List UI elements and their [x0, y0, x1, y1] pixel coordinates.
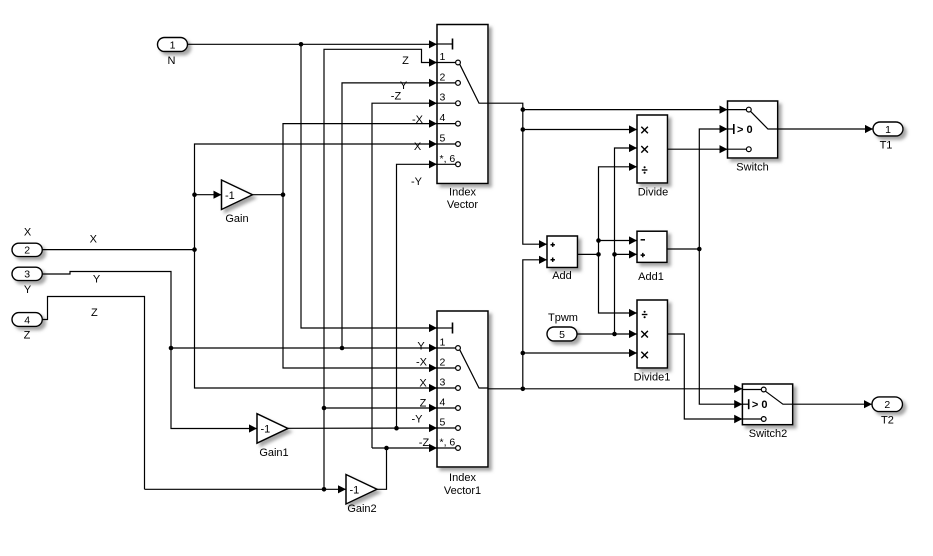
- svg-text:4: 4: [440, 112, 446, 124]
- product block 'Divide': [637, 115, 668, 199]
- junction sum bus / Add1: [596, 238, 601, 243]
- svg-text:Add1: Add1: [638, 271, 664, 283]
- wire: Z port up and across then down to bottom rail: [42, 297, 144, 490]
- svg-text:1: 1: [440, 51, 446, 63]
- gain block 'Gain1' (-1): [257, 414, 289, 459]
- gain block 'Gain' (-1): [222, 180, 253, 225]
- signal label X at IV1 port 3: [419, 378, 427, 390]
- signal label Z at IV port 1: [402, 55, 409, 67]
- outport 2 'T2': [872, 397, 903, 427]
- svg-text:5: 5: [440, 133, 446, 145]
- wire: Index Vector1 output long rail to Switch2 input 1: [488, 388, 742, 390]
- inport 5 'Tpwm': [547, 312, 578, 341]
- wire: Tpwm port into Divide1 input 2: [577, 333, 637, 335]
- wire: X branch into Gain input: [195, 194, 222, 196]
- junction Y / up branch: [340, 346, 345, 351]
- svg-text:Gain1: Gain1: [259, 447, 288, 459]
- svg-text:X: X: [24, 227, 32, 239]
- junction Z / IV1 port 4: [322, 406, 327, 411]
- junction sum bus / Add output: [596, 252, 601, 257]
- junction Z bottom rail: [322, 487, 327, 492]
- svg-text:3: 3: [440, 377, 446, 389]
- svg-text:3: 3: [24, 269, 30, 281]
- junction Divide1 branch: [521, 351, 526, 356]
- svg-text:Divide1: Divide1: [634, 372, 671, 384]
- wire: branch to Switch input 1: [523, 109, 728, 111]
- switch block 'Switch': [728, 101, 778, 174]
- svg-text:5: 5: [559, 329, 565, 341]
- svg-text:Z: Z: [24, 330, 31, 342]
- sum block 'Add1': [637, 231, 667, 283]
- wire: Z branch right into Index Vector1 port 4: [324, 407, 437, 409]
- product block 'Divide1': [634, 300, 671, 384]
- svg-text:2: 2: [440, 357, 446, 369]
- wire: Y branch down into Gain1 input: [171, 348, 257, 429]
- wire: -Z rail into Index Vector1 port 6: [372, 447, 437, 449]
- wire: Add output to sum bus: [578, 253, 599, 255]
- svg-text:Index: Index: [449, 472, 476, 484]
- svg-text:Y: Y: [24, 284, 32, 296]
- svg-text:2: 2: [440, 71, 446, 83]
- svg-text:-1: -1: [261, 423, 271, 435]
- svg-text:-Y: -Y: [411, 176, 423, 188]
- wire: control bus down into Switch2 input 2: [699, 249, 742, 404]
- svg-text:-X: -X: [416, 357, 428, 369]
- signal label Z (port 4 wire): [91, 307, 98, 319]
- wire: Divide1 output down into Switch2 input 3: [668, 334, 743, 419]
- wire: Z riser up with jog into Index Vector port 1: [324, 49, 437, 489]
- wire: X vertical up then right into Index Vector port 5: [195, 144, 438, 250]
- wire: Z bottom rail right into Gain2 input: [145, 488, 347, 490]
- inport 4 'Z': [12, 313, 42, 342]
- svg-text:Switch: Switch: [736, 162, 768, 174]
- wire: Gain output (-X) to vertical bus: [253, 194, 284, 196]
- junction on IV1 output rail: [521, 387, 526, 392]
- signal label X (port 2 wire): [90, 234, 98, 246]
- outport 1 'T1': [873, 122, 903, 152]
- wire: branch up into Add input 2 and Divide1 input 3: [523, 260, 547, 389]
- signal label -Z at IV1 port 6: [419, 437, 430, 449]
- wire: -Y branch up into Index Vector port 6: [397, 164, 438, 428]
- junction Tpwm: [612, 332, 617, 337]
- multiport switch U1 'Index Vector': [437, 25, 488, 212]
- wire: -Z up into Index Vector port 3: [372, 103, 437, 448]
- junction Tpwm/Add1: [612, 252, 617, 257]
- svg-text:*, 6: *, 6: [440, 437, 456, 449]
- junction on N wire: [299, 42, 304, 47]
- signal label -Y at IV port 6: [411, 176, 423, 188]
- wire: -X up into Index Vector port 4: [283, 124, 437, 195]
- wire: Y port jog right-up-right then down to Y bus: [42, 272, 171, 349]
- wire: Gain2 output (-Z) up to -Z rail: [377, 448, 387, 489]
- junction -Y: [394, 426, 399, 431]
- svg-text:-Y: -Y: [412, 414, 424, 426]
- svg-text:Switch2: Switch2: [749, 428, 788, 440]
- svg-text:1: 1: [440, 337, 446, 349]
- wire: sum bus down into Divide1 input 1: [599, 254, 638, 313]
- wire: Y bus right into Index Vector1 port 1: [171, 347, 437, 349]
- switch block 'Switch2': [742, 384, 792, 440]
- svg-text:Vector1: Vector1: [444, 485, 481, 497]
- svg-text:Y: Y: [417, 341, 425, 353]
- wire: Y branch up into Index Vector port 2: [342, 83, 437, 348]
- signal label Y (port 3 wire): [93, 274, 101, 286]
- svg-text:Add: Add: [552, 270, 572, 282]
- junction control bus: [697, 247, 702, 252]
- svg-text:Vector: Vector: [447, 199, 479, 211]
- junction at Switch branch: [521, 107, 526, 112]
- wire: Tpwm branch into Add1 input 2: [615, 253, 638, 255]
- svg-text:Tpwm: Tpwm: [548, 312, 578, 324]
- wire: Divide output into Switch input 3: [668, 148, 728, 150]
- svg-text:*, 6: *, 6: [440, 153, 456, 165]
- svg-text:X: X: [90, 234, 98, 246]
- junction X/vertical: [192, 247, 197, 252]
- svg-text:Divide: Divide: [638, 187, 669, 199]
- sum block 'Add': [547, 236, 578, 282]
- wire: X port to vertical bus: [42, 249, 194, 251]
- svg-text:4: 4: [24, 314, 30, 326]
- svg-text:> 0: > 0: [737, 124, 753, 136]
- svg-text:Y: Y: [93, 274, 101, 286]
- signal label Y at IV port 2: [400, 80, 408, 92]
- svg-text:-1: -1: [225, 190, 235, 202]
- gain block 'Gain2' (-1): [346, 475, 377, 516]
- wire: X vertical down then right into Index Vector1 port 3: [195, 250, 438, 388]
- svg-text:X: X: [414, 141, 422, 153]
- svg-text:T1: T1: [880, 140, 893, 152]
- wire: control bus up into Switch input 2: [699, 129, 727, 249]
- svg-text:-Z: -Z: [419, 437, 430, 449]
- svg-text:N: N: [168, 55, 176, 67]
- svg-text:1: 1: [170, 39, 176, 51]
- wire: -X down into Index Vector1 port 2: [283, 195, 437, 368]
- wire: sum bus branch into Add1 input 1: [599, 240, 638, 242]
- wire: N branch down to Index Vector1 control input: [301, 44, 437, 328]
- svg-text:Gain: Gain: [225, 213, 248, 225]
- svg-text:1: 1: [885, 124, 891, 136]
- svg-text:X: X: [419, 378, 427, 390]
- inport 3 'Y': [12, 267, 42, 296]
- wire: Gain1 output (-Y) right into Index Vector1 port 5: [288, 427, 437, 429]
- wire: branch right into Divide1 input 3: [523, 352, 637, 354]
- svg-text:Z: Z: [402, 55, 409, 67]
- svg-text:Z: Z: [91, 307, 98, 319]
- wire: N port to Index Vector control input: [188, 43, 438, 45]
- multiport switch U2 'Index Vector1': [437, 311, 488, 497]
- signal label -Y at IV1 port 5: [412, 414, 424, 426]
- wire: Index Vector output down the distribution bus: [488, 103, 547, 244]
- svg-text:T2: T2: [881, 415, 894, 427]
- signal label -X at IV1 port 2: [416, 357, 428, 369]
- junction X/Gain input: [192, 192, 197, 197]
- svg-text:2: 2: [24, 245, 30, 257]
- svg-text:3: 3: [440, 92, 446, 104]
- inport 2 'X': [12, 227, 42, 257]
- junction Y corner: [169, 346, 174, 351]
- svg-text:> 0: > 0: [752, 399, 768, 411]
- svg-text:2: 2: [884, 399, 890, 411]
- svg-text:Gain2: Gain2: [347, 503, 376, 515]
- junction at Divide branch: [521, 127, 526, 132]
- signal label X at IV port 5: [414, 141, 422, 153]
- wire: Tpwm riser up into Divide input 2 and Add1 input 2: [615, 148, 638, 334]
- wire: Add1 output to control bus: [667, 248, 699, 250]
- junction -Z: [384, 446, 389, 451]
- signal label Z at IV1 port 4: [420, 398, 427, 410]
- svg-text:-Z: -Z: [391, 91, 402, 103]
- svg-text:Index: Index: [449, 187, 476, 199]
- wire: branch to Divide input 1: [523, 129, 637, 131]
- inport 1 'N': [158, 38, 188, 68]
- signal label -Z at IV port 3: [391, 91, 402, 103]
- junction -X bus: [281, 192, 286, 197]
- signal label -X at IV port 4: [412, 114, 424, 126]
- svg-text:Z: Z: [420, 398, 427, 410]
- svg-text:4: 4: [440, 397, 446, 409]
- wire: sum bus up into Divide input 3: [599, 167, 638, 255]
- svg-text:-1: -1: [350, 484, 360, 496]
- signal label Y at IV1 port 1: [417, 341, 425, 353]
- wire: Switch output to T1: [778, 128, 873, 130]
- wire: Switch2 output to T2: [793, 403, 872, 405]
- svg-text:-X: -X: [412, 114, 424, 126]
- svg-text:5: 5: [440, 417, 446, 429]
